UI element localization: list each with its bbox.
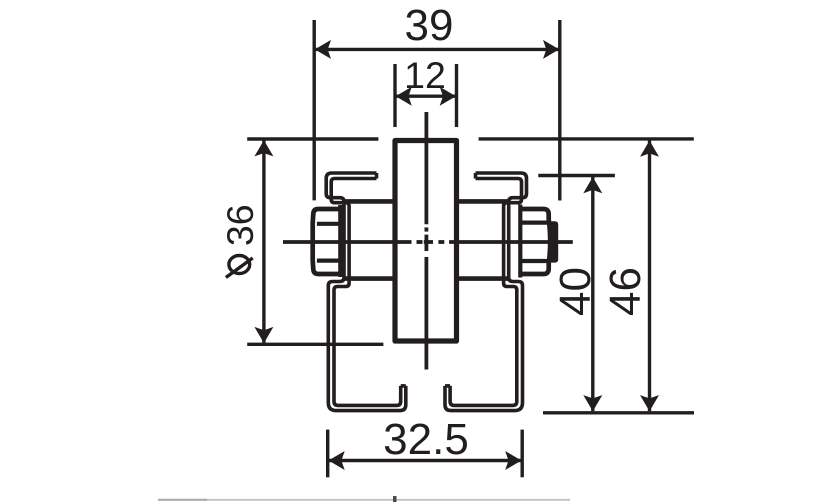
cropped caption remnant at bottom [207,499,570,501]
rail left outer surface [326,173,406,411]
arrow 40 top [583,177,602,193]
rail left inner surface [331,179,401,406]
center line horizontal (axle axis) [283,240,573,244]
rail right outer surface [445,173,527,411]
nut right outline [520,209,550,274]
dimension 12 extension lines [395,64,457,127]
svg-text:36: 36 [219,204,261,246]
arrow phi36 bottom [254,327,273,343]
bolt head left: bearing face [338,205,343,277]
dimension 46 top extension line [479,137,694,140]
center line vertical [424,112,428,370]
svg-text:39: 39 [405,1,454,50]
arrow 40 bottom [583,395,602,411]
arrow 46 top [640,141,659,157]
arrow 32.5 right [505,451,521,470]
svg-text:32.5: 32.5 [383,415,469,464]
dimension 40 top extension line [538,174,615,177]
nut right: bearing face / washer [518,205,522,278]
dimension 40 line [591,177,594,411]
dimension 12 line [395,94,457,97]
svg-text:40: 40 [551,267,600,316]
arrow 39 left [315,40,331,59]
dimension 46 line [648,141,651,412]
svg-text:46: 46 [601,267,650,316]
axle bushing right [459,201,509,278]
rail left lip cap [401,384,406,388]
arrow 32.5 left [329,451,345,470]
dimension 40/46 bottom extension line [543,411,694,414]
arrow 46 bottom [640,395,659,411]
dimension 32.5 line [328,459,523,462]
axle thread end (solid) [549,221,558,262]
bolt head left outline [313,209,341,274]
dimension 39 line [314,48,560,51]
axle bushing left [344,201,393,278]
arrow 12 right [440,87,456,106]
rail right inner surface [450,179,521,406]
roller wheel body [395,141,457,342]
dimension 32.5 extension lines [328,430,523,478]
arrow 12 left [396,87,412,106]
rail right hook end cap [474,173,478,179]
rail left hook end cap [375,173,379,179]
dim text phi36: phi symbol [226,256,253,278]
arrow 39 right [543,40,559,59]
bolt head left facets [317,222,341,226]
dimension phi36 extension lines [247,139,383,344]
nut right facets [520,221,548,225]
rail right lip cap [445,384,450,388]
svg-text:12: 12 [404,54,446,96]
dimension 39 extension lines [314,20,560,201]
dimension phi36 line [262,141,265,343]
arrow phi36 top [254,140,273,156]
